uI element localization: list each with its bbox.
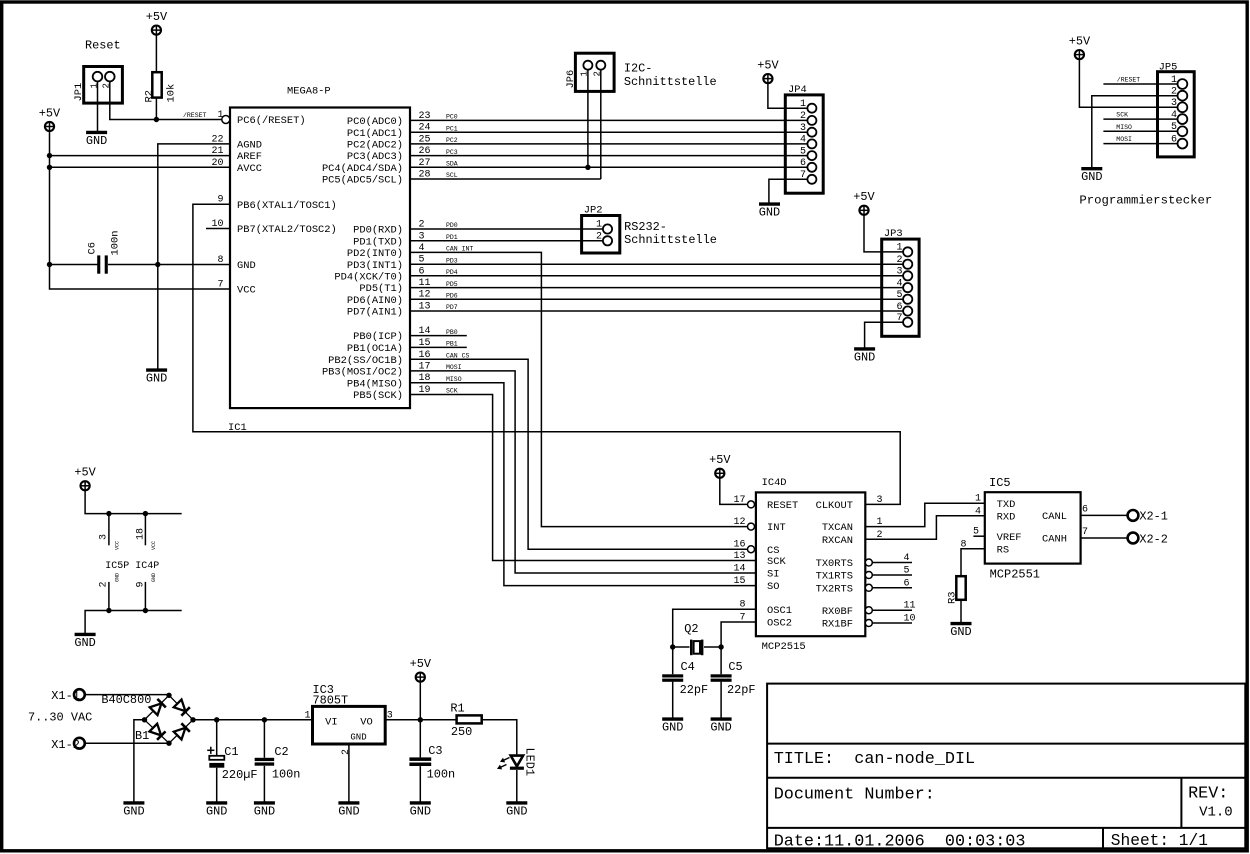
svg-text:GND: GND <box>338 804 359 818</box>
svg-text:CS: CS <box>767 545 779 557</box>
svg-text:GND: GND <box>854 350 875 364</box>
svg-text:7: 7 <box>1082 527 1088 538</box>
svg-text:PC1(ADC1): PC1(ADC1) <box>347 128 403 140</box>
svg-text:C2: C2 <box>274 745 288 759</box>
svg-text:1: 1 <box>975 494 981 505</box>
svg-text:SCK: SCK <box>446 388 458 395</box>
svg-text:TX1RTS: TX1RTS <box>816 571 853 583</box>
svg-text:GND: GND <box>1081 170 1102 184</box>
svg-text:OSC1: OSC1 <box>767 605 792 617</box>
svg-text:CAN CS: CAN CS <box>446 353 470 360</box>
svg-text:X2-1: X2-1 <box>1139 510 1168 524</box>
svg-text:JP1: JP1 <box>73 83 85 102</box>
svg-text:PD5(T1): PD5(T1) <box>359 283 403 295</box>
svg-text:TITLE: can-node_DIL: TITLE: can-node_DIL <box>774 750 975 769</box>
svg-text:4: 4 <box>904 553 910 564</box>
svg-text:C3: C3 <box>428 744 442 758</box>
svg-text:V1.0: V1.0 <box>1199 805 1233 821</box>
svg-text:GND: GND <box>206 804 227 818</box>
svg-text:CANH: CANH <box>1042 534 1067 546</box>
svg-text:Q2: Q2 <box>684 622 698 636</box>
svg-text:PD7(AIN1): PD7(AIN1) <box>347 307 403 319</box>
svg-text:SO: SO <box>767 581 779 593</box>
svg-text:7805T: 7805T <box>313 694 349 708</box>
svg-text:MISO: MISO <box>1116 124 1132 131</box>
svg-text:PD4: PD4 <box>446 269 458 276</box>
svg-text:PD6(AIN0): PD6(AIN0) <box>347 295 403 307</box>
svg-text:SI: SI <box>767 569 779 581</box>
svg-text:C4: C4 <box>681 660 695 674</box>
svg-text:IC5: IC5 <box>989 476 1011 490</box>
svg-text:250: 250 <box>451 725 472 739</box>
svg-text:+5V: +5V <box>74 466 96 480</box>
svg-text:+5V: +5V <box>1069 34 1091 48</box>
svg-text:GND: GND <box>123 804 144 818</box>
svg-text:PD2(INT0): PD2(INT0) <box>347 248 403 260</box>
svg-text:9: 9 <box>136 581 147 587</box>
svg-text:1: 1 <box>304 710 310 721</box>
svg-text:GND: GND <box>115 573 121 582</box>
svg-text:+5V: +5V <box>853 190 875 204</box>
svg-text:2: 2 <box>99 581 110 587</box>
svg-text:RESET: RESET <box>767 500 798 512</box>
svg-text:C6: C6 <box>87 242 99 254</box>
svg-text:+5V: +5V <box>709 453 731 467</box>
svg-text:AREF: AREF <box>237 151 262 163</box>
svg-text:Document Number:: Document Number: <box>774 786 935 805</box>
svg-text:X1-1: X1-1 <box>51 689 80 703</box>
svg-text:SCL: SCL <box>446 172 458 179</box>
svg-text:SCK: SCK <box>767 556 786 568</box>
svg-text:PD5: PD5 <box>446 281 458 288</box>
svg-text:PD0(RXD): PD0(RXD) <box>353 225 403 237</box>
svg-text:GND: GND <box>86 134 107 148</box>
svg-text:PC1: PC1 <box>446 125 458 132</box>
svg-text:MEGA8-P: MEGA8-P <box>287 86 331 98</box>
svg-text:PD3: PD3 <box>446 257 458 264</box>
svg-text:AVCC: AVCC <box>237 163 262 175</box>
svg-text:PB0: PB0 <box>446 329 458 336</box>
svg-text:5: 5 <box>896 290 902 301</box>
svg-text:4: 4 <box>896 278 902 289</box>
svg-text:C1: C1 <box>224 745 238 759</box>
svg-text:14: 14 <box>733 564 745 575</box>
svg-text:CLKOUT: CLKOUT <box>816 500 853 512</box>
svg-text:CANL: CANL <box>1042 511 1067 523</box>
svg-text:PC5(ADC5/SCL): PC5(ADC5/SCL) <box>322 175 403 187</box>
svg-text:TXCAN: TXCAN <box>822 522 853 534</box>
svg-text:IC5P IC4P: IC5P IC4P <box>105 561 159 572</box>
svg-text:6: 6 <box>800 158 806 169</box>
svg-text:220µF: 220µF <box>222 768 258 782</box>
svg-text:Programmierstecker: Programmierstecker <box>1079 193 1212 207</box>
svg-text:IC4D: IC4D <box>762 477 787 489</box>
svg-text:PC2: PC2 <box>446 137 458 144</box>
svg-text:/RESET: /RESET <box>183 112 207 119</box>
svg-text:AGND: AGND <box>237 140 262 152</box>
svg-text:INT: INT <box>767 522 786 534</box>
svg-text:JP2: JP2 <box>584 205 603 217</box>
svg-text:B1: B1 <box>135 729 149 743</box>
svg-text:RX1BF: RX1BF <box>822 619 853 631</box>
svg-text:PD0: PD0 <box>446 222 458 229</box>
svg-text:PC6(/RESET): PC6(/RESET) <box>237 115 306 127</box>
svg-text:PB6(XTAL1/TOSC1): PB6(XTAL1/TOSC1) <box>237 200 337 212</box>
svg-text:RXCAN: RXCAN <box>822 535 853 547</box>
svg-text:R2: R2 <box>144 90 156 102</box>
svg-text:18: 18 <box>136 528 147 540</box>
svg-text:GND: GND <box>950 625 971 639</box>
svg-text:PC4(ADC4/SDA): PC4(ADC4/SDA) <box>322 163 403 175</box>
svg-text:7..30 VAC: 7..30 VAC <box>28 711 92 725</box>
svg-text:13: 13 <box>733 551 745 562</box>
svg-text:GND: GND <box>74 636 95 650</box>
svg-text:GND: GND <box>237 260 256 272</box>
svg-text:B40C800: B40C800 <box>101 693 151 707</box>
svg-text:22pF: 22pF <box>680 683 709 697</box>
svg-text:MOSI: MOSI <box>446 364 462 371</box>
svg-text:15: 15 <box>733 576 745 587</box>
svg-text:VCC: VCC <box>237 285 256 297</box>
svg-text:12: 12 <box>733 517 745 528</box>
svg-text:PB2(SS/OC1B): PB2(SS/OC1B) <box>328 355 403 367</box>
svg-text:SDA: SDA <box>446 161 458 168</box>
svg-text:100n: 100n <box>427 767 456 781</box>
svg-text:22pF: 22pF <box>727 683 756 697</box>
svg-text:Schnittstelle: Schnittstelle <box>624 75 717 89</box>
svg-text:Schnittstelle: Schnittstelle <box>624 233 717 247</box>
svg-text:10: 10 <box>904 614 916 625</box>
svg-text:GND: GND <box>710 721 731 735</box>
svg-text:VCC: VCC <box>115 541 121 550</box>
svg-text:PB0(ICP): PB0(ICP) <box>353 331 403 343</box>
svg-text:PC2(ADC2): PC2(ADC2) <box>347 140 403 152</box>
svg-text:4: 4 <box>800 135 806 146</box>
svg-text:JP6: JP6 <box>565 70 577 89</box>
svg-text:PD7: PD7 <box>446 304 458 311</box>
svg-text:MISO: MISO <box>446 376 462 383</box>
svg-text:11: 11 <box>904 601 916 612</box>
svg-text:PB4(MISO): PB4(MISO) <box>347 378 403 390</box>
svg-text:RXD: RXD <box>997 511 1016 523</box>
svg-text:RS: RS <box>997 544 1009 556</box>
svg-text:X2-2: X2-2 <box>1139 533 1168 547</box>
svg-text:5: 5 <box>800 146 806 157</box>
svg-text:REV:: REV: <box>1188 784 1228 803</box>
svg-text:R3: R3 <box>947 592 959 604</box>
svg-text:JP5: JP5 <box>1159 62 1178 74</box>
svg-text:PB5(SCK): PB5(SCK) <box>353 390 403 402</box>
svg-text:OSC2: OSC2 <box>767 618 792 630</box>
svg-text:MOSI: MOSI <box>1116 136 1132 143</box>
svg-text:RX0BF: RX0BF <box>822 606 853 618</box>
svg-text:MCP2551: MCP2551 <box>990 568 1040 582</box>
svg-text:PD4(XCK/T0): PD4(XCK/T0) <box>334 271 403 283</box>
svg-text:C5: C5 <box>728 660 742 674</box>
svg-text:100n: 100n <box>272 768 301 782</box>
svg-text:6: 6 <box>904 578 910 589</box>
svg-text:PD1(TXD): PD1(TXD) <box>353 236 403 248</box>
svg-text:GND: GND <box>759 206 780 220</box>
svg-text:SCK: SCK <box>1116 112 1128 119</box>
svg-text:RS232-: RS232- <box>624 220 667 234</box>
svg-text:PD6: PD6 <box>446 292 458 299</box>
svg-text:CAN INT: CAN INT <box>446 246 473 253</box>
svg-text:Sheet: 1/1: Sheet: 1/1 <box>1111 832 1208 850</box>
svg-text:1: 1 <box>596 220 602 231</box>
svg-text:PC3: PC3 <box>446 149 458 156</box>
svg-text:GND: GND <box>151 573 157 582</box>
svg-text:PC0(ADC0): PC0(ADC0) <box>347 116 403 128</box>
svg-text:5: 5 <box>904 566 910 577</box>
svg-text:MCP2515: MCP2515 <box>762 641 806 653</box>
svg-text:6: 6 <box>896 302 902 313</box>
svg-text:TXD: TXD <box>997 499 1016 511</box>
svg-text:TX2RTS: TX2RTS <box>816 583 853 595</box>
svg-text:4: 4 <box>975 506 981 517</box>
svg-text:GND: GND <box>350 733 366 743</box>
svg-text:16: 16 <box>733 540 745 551</box>
svg-text:VCC: VCC <box>151 541 157 550</box>
svg-text:VO: VO <box>360 717 372 729</box>
svg-text:PC0: PC0 <box>446 114 458 121</box>
svg-text:6: 6 <box>1082 504 1088 515</box>
svg-text:LED1: LED1 <box>523 748 537 777</box>
svg-text:GND: GND <box>506 804 527 818</box>
svg-text:GND: GND <box>410 804 431 818</box>
svg-text:3: 3 <box>800 123 806 134</box>
svg-text:PC3(ADC3): PC3(ADC3) <box>347 151 403 163</box>
svg-text:3: 3 <box>99 534 110 540</box>
svg-text:Date:11.01.2006 00:03:03: Date:11.01.2006 00:03:03 <box>774 833 1026 852</box>
svg-text:Reset: Reset <box>85 39 121 53</box>
svg-text:2: 2 <box>341 749 352 755</box>
svg-text:VREF: VREF <box>997 532 1022 544</box>
svg-text:PB1: PB1 <box>446 341 458 348</box>
svg-text:GND: GND <box>662 721 683 735</box>
svg-text:R1: R1 <box>450 702 464 716</box>
svg-text:I2C-: I2C- <box>624 62 653 76</box>
svg-text:+5V: +5V <box>410 657 432 671</box>
svg-text:/RESET: /RESET <box>1117 77 1141 84</box>
svg-text:2: 2 <box>596 231 602 242</box>
svg-text:3: 3 <box>877 495 883 506</box>
svg-text:3: 3 <box>896 267 902 278</box>
svg-text:PD3(INT1): PD3(INT1) <box>347 260 403 272</box>
svg-text:JP4: JP4 <box>788 84 807 96</box>
svg-text:PB3(MOSI/OC2): PB3(MOSI/OC2) <box>322 367 403 379</box>
svg-text:10k: 10k <box>165 84 177 103</box>
svg-text:TX0RTS: TX0RTS <box>816 558 853 570</box>
svg-text:+5V: +5V <box>146 10 168 24</box>
svg-text:+5V: +5V <box>757 58 779 72</box>
svg-text:100n: 100n <box>110 231 122 256</box>
svg-text:PD1: PD1 <box>446 234 458 241</box>
svg-text:2: 2 <box>800 111 806 122</box>
svg-text:JP3: JP3 <box>884 228 903 240</box>
svg-text:+5V: +5V <box>39 106 61 120</box>
svg-text:VI: VI <box>325 717 337 729</box>
svg-text:GND: GND <box>254 804 275 818</box>
svg-text:X1-2: X1-2 <box>51 738 80 752</box>
svg-text:GND: GND <box>146 372 167 386</box>
svg-text:PB7(XTAL2/TOSC2): PB7(XTAL2/TOSC2) <box>237 224 337 236</box>
svg-text:2: 2 <box>896 255 902 266</box>
svg-text:PB1(OC1A): PB1(OC1A) <box>347 343 403 355</box>
